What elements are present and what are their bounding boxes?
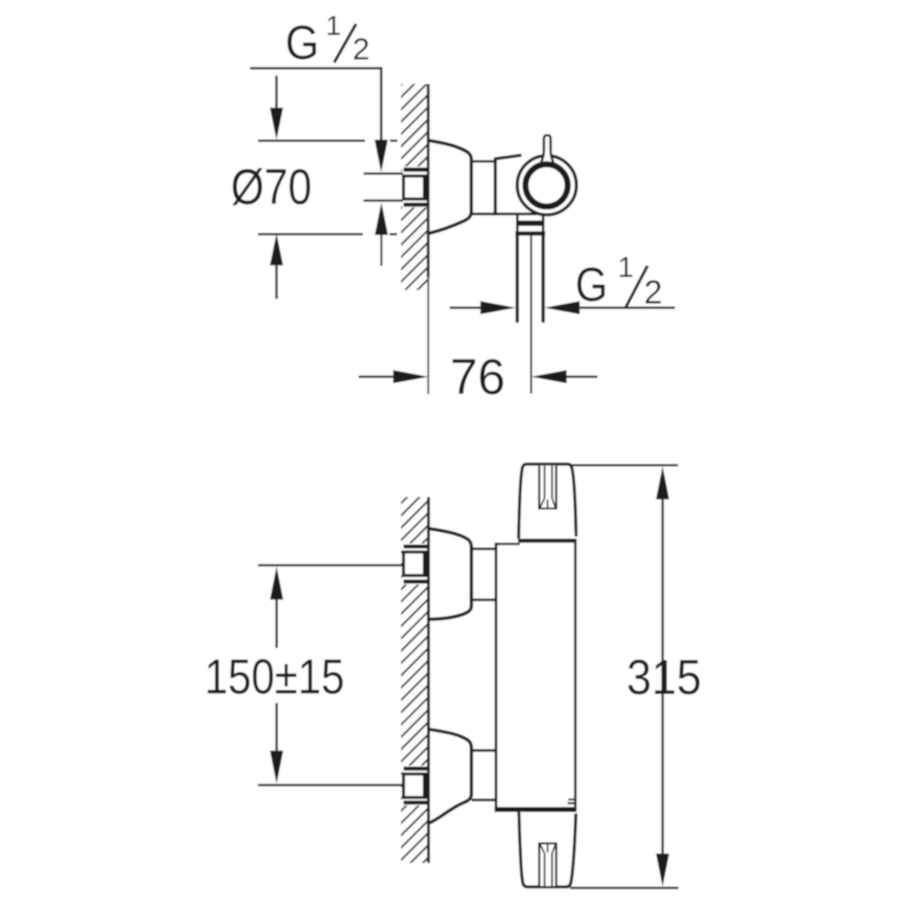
315 dimension extension lines bbox=[570, 464, 679, 889]
G1/2 pipe stub through wall, borders bbox=[364, 172, 404, 201]
handle lever stem bbox=[541, 135, 554, 164]
Ø70 label bbox=[231, 159, 312, 215]
pipe centerline bbox=[530, 236, 532, 394]
svg-text:2: 2 bbox=[353, 32, 370, 67]
svg-text:G: G bbox=[285, 16, 319, 70]
Ø70 lower extension line bbox=[258, 233, 397, 235]
outlet union nut below valve bbox=[515, 215, 545, 236]
bottom union nut bottom bar bbox=[404, 801, 429, 805]
bottom union nut top bar bbox=[404, 767, 428, 771]
handle knob grip ring bbox=[526, 164, 568, 206]
Ø70 dimension upper: leader line and down arrow bbox=[270, 76, 283, 140]
G1/2 leader bracket bbox=[250, 68, 381, 140]
150±15 dimension line with arrows bbox=[270, 566, 283, 783]
315 label bbox=[627, 650, 702, 705]
svg-text:150±15: 150±15 bbox=[205, 650, 345, 705]
top union nut top bar bbox=[404, 545, 428, 549]
G1/2 pipe dimension, right arrow bbox=[544, 301, 675, 314]
76 dimension, left arrow at wall bbox=[359, 370, 429, 383]
top union nut bottom bar bbox=[404, 580, 429, 584]
counter arrow (up) at stub bottom bbox=[375, 202, 388, 266]
76 label bbox=[450, 349, 505, 405]
bottom union boss lines bbox=[472, 750, 495, 800]
150±15 dimension extension lines bbox=[258, 564, 402, 786]
bottom union nut square bbox=[404, 774, 426, 798]
handle knob outer circle bbox=[517, 156, 576, 215]
76 dimension, right arrow at centerline bbox=[531, 370, 597, 383]
top handle (front view) bbox=[519, 464, 577, 539]
wall hatching (top view) bbox=[401, 84, 429, 290]
mixer body (front view) bbox=[495, 539, 577, 812]
wall surface edge line (top view) bbox=[427, 84, 430, 394]
valve body (side view) bbox=[495, 155, 521, 215]
top handle grip slot bbox=[539, 466, 556, 509]
union nut square bbox=[404, 176, 426, 199]
top S-union escutcheon cone bbox=[431, 529, 472, 619]
Ø70 upper extension line bbox=[258, 140, 398, 142]
Ø70 lower arrow (up) bbox=[270, 234, 283, 300]
shower outlet pipe walls bbox=[516, 236, 545, 323]
union nut top flange bar bbox=[404, 168, 428, 172]
wall surface edge line (front view) bbox=[427, 497, 430, 863]
svg-text:1: 1 bbox=[618, 252, 634, 284]
wall hatching (front view) bbox=[401, 497, 429, 863]
svg-text:315: 315 bbox=[627, 650, 702, 705]
top union nut square bbox=[404, 552, 426, 576]
315 dimension line with arrows bbox=[656, 466, 669, 887]
bottom handle (front view) bbox=[519, 812, 576, 887]
union nut bottom flange bar bbox=[404, 203, 429, 207]
G 1/2 label (top) bbox=[285, 10, 369, 70]
svg-text:76: 76 bbox=[450, 349, 505, 405]
white covers for wall unions bbox=[402, 544, 427, 806]
150±15 label bbox=[205, 650, 345, 705]
G 1/2 label (lower right) bbox=[575, 252, 662, 312]
escutcheon cone (side view) bbox=[430, 141, 472, 233]
svg-text:Ø70: Ø70 bbox=[231, 159, 312, 215]
G1/2 leader arrow (down) bbox=[375, 140, 388, 172]
svg-text:1: 1 bbox=[326, 10, 341, 41]
bottom S-union escutcheon cone bbox=[431, 730, 472, 823]
svg-text:2: 2 bbox=[644, 274, 662, 311]
G1/2 pipe dimension, left arrow bbox=[450, 301, 516, 314]
svg-text:G: G bbox=[575, 258, 608, 312]
valve neck lines bbox=[472, 161, 538, 214]
top union boss lines bbox=[472, 549, 495, 600]
bottom handle grip slot bbox=[539, 843, 556, 886]
pipe stub white cover through wall bbox=[364, 167, 428, 208]
outlet mark inside body bbox=[568, 799, 576, 805]
